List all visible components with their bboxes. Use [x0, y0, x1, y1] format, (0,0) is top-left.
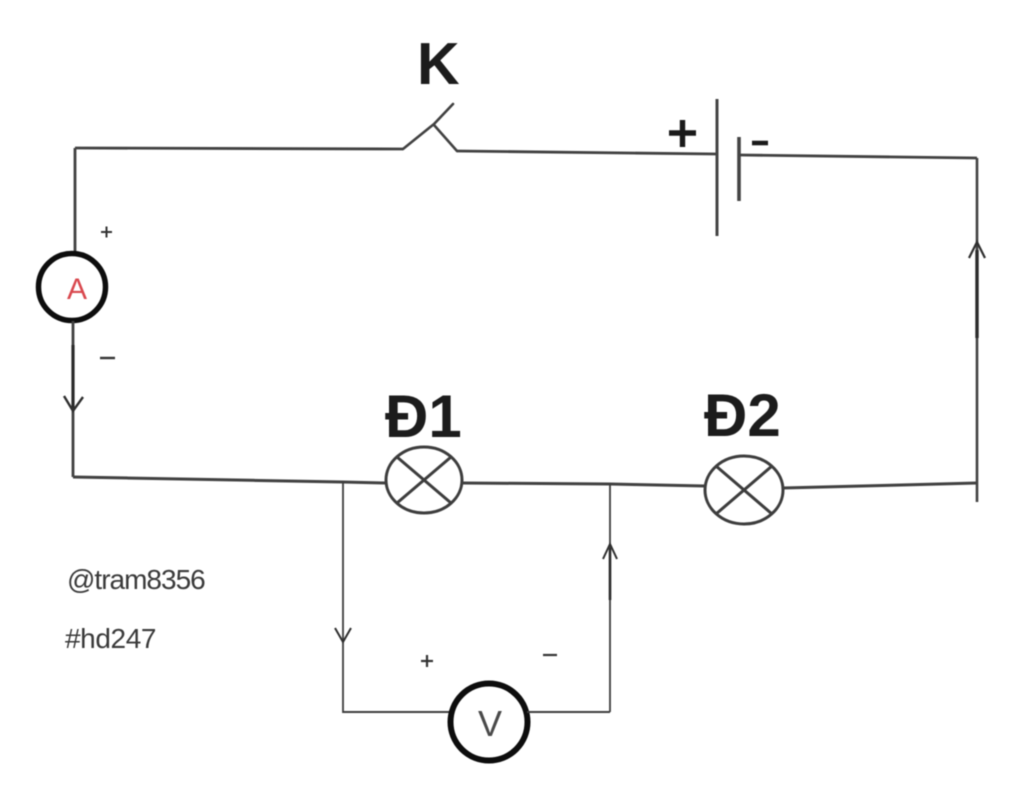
- arrow up on voltmeter right branch: [603, 544, 617, 600]
- wire bottom-left to lamp D1: [73, 477, 386, 483]
- svg-text:#hd247: #hd247: [65, 623, 156, 654]
- ammeter A: [39, 254, 106, 321]
- svg-text:Đ1: Đ1: [385, 383, 462, 450]
- ammeter - label: [100, 357, 115, 359]
- switch K: [403, 104, 457, 151]
- voltmeter branch right vertical: [609, 484, 611, 712]
- battery short plate (-): [737, 137, 741, 201]
- svg-text:A: A: [67, 273, 87, 306]
- wire voltmeter bottom right: [527, 711, 610, 713]
- wire lamp D2 to right: [783, 483, 977, 488]
- lamp D2: [705, 456, 783, 524]
- wire left vertical top: [74, 148, 77, 254]
- voltmeter - label: [543, 654, 557, 656]
- voltmeter V: [451, 684, 528, 761]
- wire between lamps: [462, 483, 705, 486]
- battery + label: [669, 120, 696, 147]
- svg-text:V: V: [478, 703, 502, 744]
- lamp D1: [386, 447, 462, 513]
- battery long plate (+): [716, 99, 719, 236]
- wire switch to battery: [457, 151, 716, 154]
- wire below ammeter: [72, 321, 75, 477]
- wire right vertical: [976, 158, 979, 502]
- svg-text:K: K: [417, 31, 460, 97]
- wire voltmeter bottom left: [343, 711, 452, 713]
- svg-text:@tram8356: @tram8356: [67, 564, 205, 595]
- battery - label: [752, 141, 768, 146]
- wire top-left horizontal: [75, 148, 403, 149]
- voltmeter + label: [421, 655, 433, 667]
- ammeter + label: [101, 227, 112, 238]
- arrow down on voltmeter left branch: [335, 628, 351, 642]
- wire battery to top-right corner: [740, 155, 977, 158]
- arrow down below ammeter: [64, 345, 83, 411]
- svg-text:Đ2: Đ2: [704, 382, 781, 449]
- voltmeter branch left vertical: [342, 482, 344, 713]
- arrow up on right wire: [969, 242, 985, 338]
